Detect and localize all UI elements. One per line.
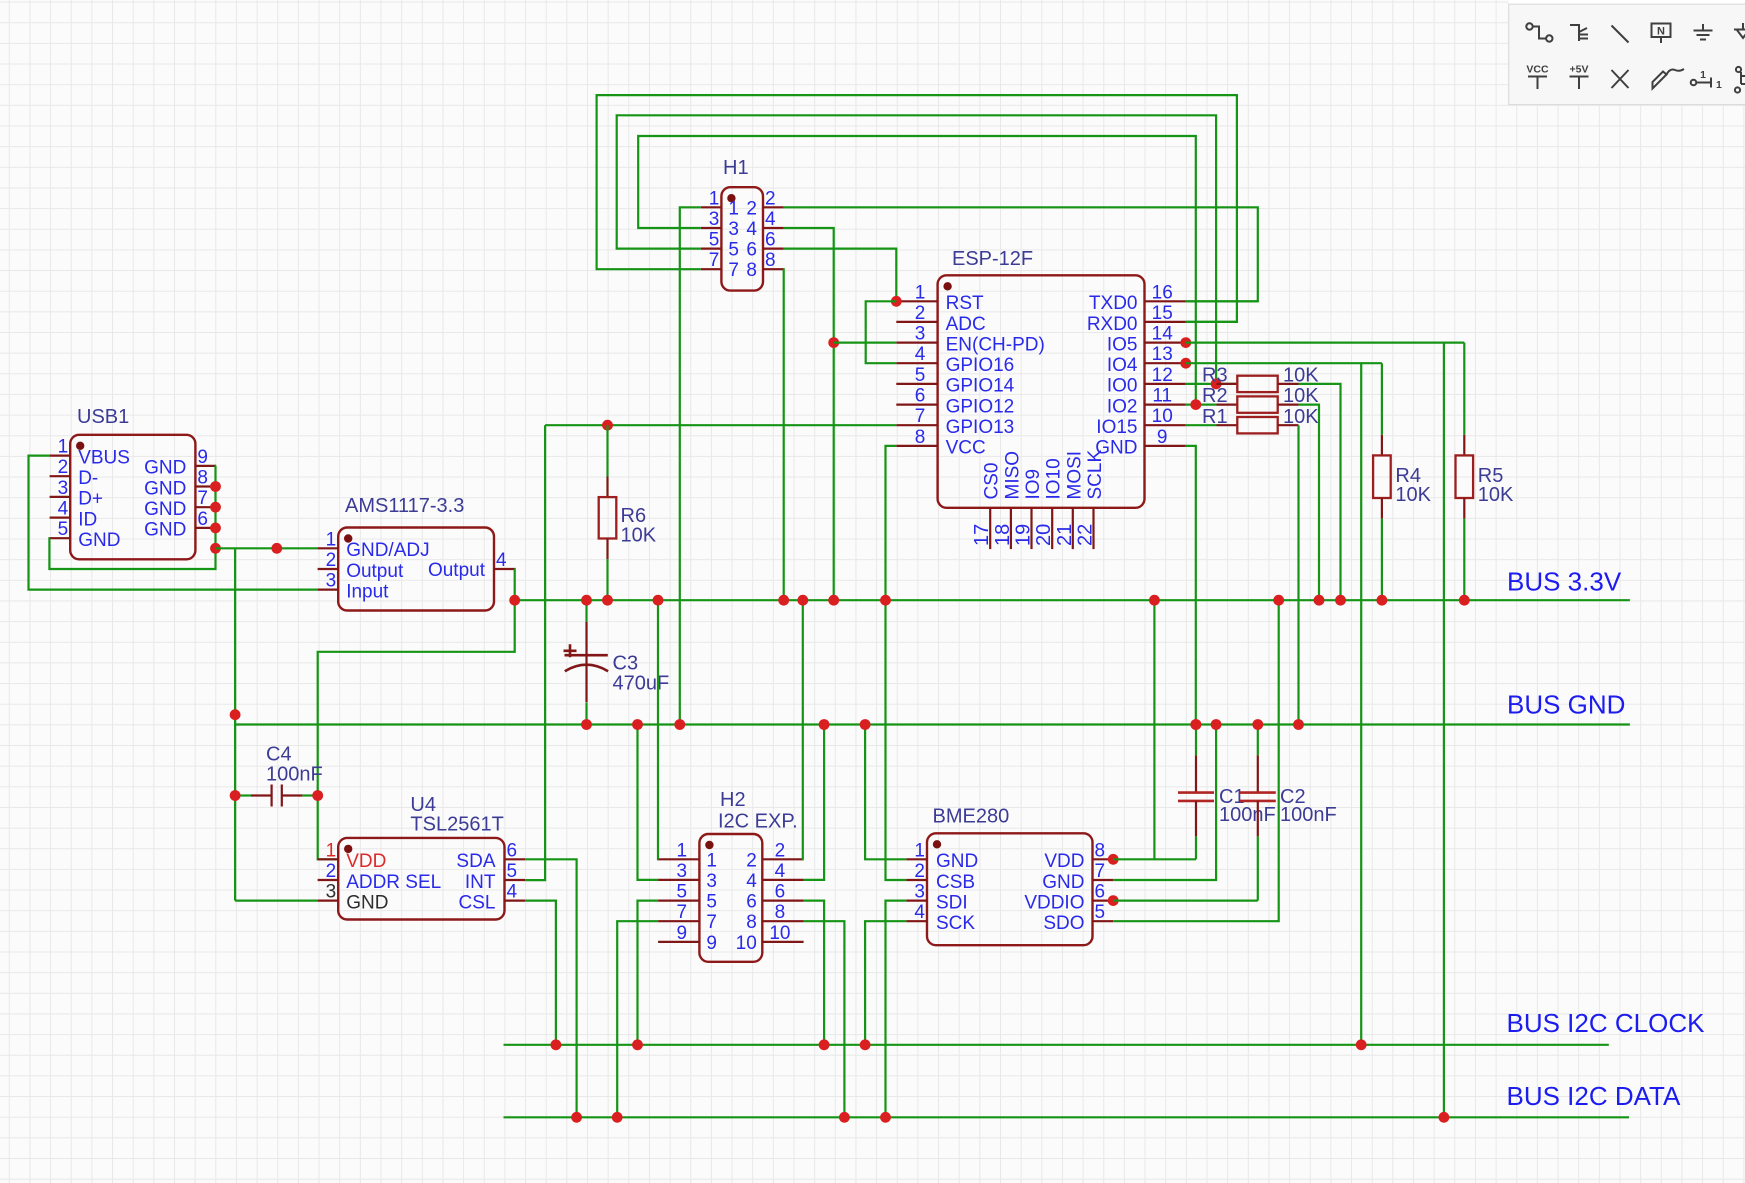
pin 3 BME280 SDI	[906, 899, 927, 901]
pin 6 H1	[763, 248, 784, 250]
wire IO4 row	[1186, 362, 1382, 364]
wire C4 right	[302, 794, 317, 796]
wire IO15 to R1	[1186, 424, 1217, 426]
wire IO5 to BUS I2C DATA	[1443, 343, 1445, 1118]
wire H1 pin8 to BUS 3.3V	[782, 269, 784, 600]
svg-text:19: 19	[1013, 524, 1035, 546]
anchor dot USB1	[76, 442, 84, 450]
svg-text:8: 8	[746, 912, 757, 933]
svg-text:7: 7	[709, 250, 720, 271]
svg-text:5: 5	[507, 861, 518, 882]
svg-text:D-: D-	[78, 468, 98, 489]
svg-text:9: 9	[677, 923, 688, 944]
module ESP-12F body	[938, 275, 1145, 508]
pin 5 USB1 GND	[50, 537, 71, 539]
capacitor C2	[1257, 725, 1259, 756]
svg-text:3: 3	[914, 882, 925, 903]
wire RST to GPIO16	[866, 301, 897, 363]
pin 4 H2	[762, 879, 803, 881]
svg-text:8: 8	[775, 902, 786, 923]
svg-text:IO10: IO10	[1044, 458, 1065, 499]
junction C2 on BUS GND	[1252, 719, 1263, 730]
junction U4 SDA on BUS I2C DATA	[571, 1112, 582, 1123]
svg-text:6: 6	[746, 240, 757, 261]
pin 19 ESP-12F IO9	[1030, 508, 1032, 549]
svg-text:RST: RST	[946, 293, 984, 314]
wire USB GND loop	[49, 466, 216, 569]
svg-text:1: 1	[709, 188, 720, 209]
regulator AMS1117-3.3 body	[338, 528, 494, 611]
pin 1 U4 VDD	[318, 858, 339, 860]
svg-text:H2: H2	[720, 789, 746, 811]
pin 6 H2	[762, 899, 803, 901]
svg-text:5: 5	[728, 240, 739, 261]
svg-text:H1: H1	[723, 157, 749, 179]
pin 2 AMS1117 Output	[318, 568, 339, 570]
toolbar icon line tool	[1612, 26, 1629, 43]
svg-text:10: 10	[736, 933, 757, 954]
pin 14 ESP-12F IO5	[1145, 342, 1186, 344]
svg-text:10: 10	[1152, 406, 1173, 427]
junction R6 top	[602, 420, 613, 431]
wire H1 pin6 to ESP RST	[784, 249, 897, 302]
pin 10 ESP-12F IO15	[1145, 424, 1186, 426]
wire GND vertical to U4	[234, 548, 236, 900]
junction C4 right	[312, 790, 323, 801]
svg-text:ADDR SEL: ADDR SEL	[346, 872, 441, 893]
junction BME GND on BUS GND	[860, 719, 871, 730]
toolbar icon no-connect tool	[1612, 70, 1629, 88]
svg-text:6: 6	[775, 882, 786, 903]
pin 22 ESP-12F SCLK	[1092, 508, 1094, 549]
svg-text:7: 7	[1095, 861, 1106, 882]
svg-text:5: 5	[706, 892, 717, 913]
svg-text:10K: 10K	[1283, 406, 1319, 428]
anchor dot ESP-12F	[943, 282, 951, 290]
junction USB GND pin	[210, 523, 221, 534]
svg-text:2: 2	[915, 303, 926, 324]
svg-text:I2C EXP.: I2C EXP.	[718, 811, 798, 833]
toolbar icon partial right	[1735, 67, 1745, 93]
svg-text:2: 2	[746, 198, 757, 219]
resistor R1	[1217, 424, 1238, 426]
pin 5 H1	[701, 248, 722, 250]
svg-text:CSL: CSL	[459, 892, 496, 913]
wire R2 to BUS 3.3V	[1299, 405, 1320, 601]
junction AMS output on BUS 3.3V	[509, 595, 520, 606]
svg-text:VCC: VCC	[1526, 64, 1549, 76]
pin 15 ESP-12F RXD0	[1145, 321, 1186, 323]
junction H2 pin5 on BUS I2C CLOCK	[632, 1039, 643, 1050]
wire H2 pin1 to BUS 3.3V	[657, 600, 659, 859]
svg-text:SCK: SCK	[936, 913, 975, 934]
wire R3 to BUS 3.3V	[1299, 384, 1341, 600]
junction R6 on BUS 3.3V	[602, 595, 613, 606]
wire IO5 row	[1186, 342, 1465, 344]
svg-text:GND: GND	[78, 530, 120, 551]
svg-text:4: 4	[496, 550, 507, 571]
pin 4 U4 CSL	[505, 899, 526, 901]
toolbar icon earth tool partial	[1734, 23, 1745, 38]
svg-text:GPIO12: GPIO12	[946, 396, 1015, 417]
pin 2 USB1 D-	[50, 475, 71, 477]
wire BME VDD to BUS 3.3V	[1153, 600, 1155, 859]
svg-text:GND: GND	[1042, 872, 1084, 893]
wire H2 pin8 to BUS I2C DATA	[804, 921, 845, 1117]
junction BME VDD pin	[1108, 854, 1119, 865]
svg-text:R3: R3	[1202, 365, 1228, 387]
svg-text:CSB: CSB	[936, 872, 975, 893]
wire IO2 to R2	[1186, 404, 1217, 406]
svg-text:VDD: VDD	[346, 851, 386, 872]
pin 5 ESP-12F GPIO14	[896, 383, 937, 385]
svg-text:3: 3	[728, 219, 739, 240]
svg-text:2: 2	[326, 550, 337, 571]
wire GND to AMS GND/ADJ	[216, 547, 318, 549]
junction BME SDO on BUS 3.3V	[1273, 595, 1284, 606]
wire IO4 to BUS I2C CLOCK	[1360, 363, 1362, 1045]
svg-text:2: 2	[775, 840, 786, 861]
svg-text:ADC: ADC	[946, 314, 986, 335]
wire BME SDO to BUS 3.3V	[1113, 600, 1279, 921]
svg-text:12: 12	[1152, 365, 1173, 386]
wire H2 pin5 to BUS I2C CLOCK	[638, 901, 659, 1045]
svg-text:3: 3	[709, 209, 720, 230]
svg-text:1: 1	[1716, 79, 1722, 91]
svg-text:3: 3	[706, 871, 717, 892]
pin 18 ESP-12F MISO	[1010, 508, 1012, 549]
svg-text:IO5: IO5	[1107, 334, 1138, 355]
capacitor C1	[1195, 725, 1197, 756]
svg-text:4: 4	[507, 882, 518, 903]
svg-text:ID: ID	[78, 509, 97, 530]
svg-text:10K: 10K	[1395, 484, 1431, 506]
pin 2 U4 ADDR SEL	[318, 879, 339, 881]
svg-text:IO0: IO0	[1107, 376, 1138, 397]
svg-text:GND: GND	[144, 499, 186, 520]
svg-text:IO9: IO9	[1023, 469, 1044, 500]
svg-text:R1: R1	[1202, 406, 1228, 428]
svg-text:C4: C4	[266, 744, 292, 766]
svg-text:N: N	[1657, 26, 1665, 38]
pin 6 USB1 GND	[195, 527, 216, 529]
svg-text:1: 1	[915, 282, 926, 303]
wire TXD0 row	[1186, 300, 1258, 302]
wire AMS output to U4 VDD	[318, 569, 515, 859]
junction C3 on BUS 3.3V	[581, 595, 592, 606]
pin 2 H2	[762, 858, 803, 860]
svg-text:17: 17	[971, 524, 993, 546]
svg-text:3: 3	[326, 882, 337, 903]
resistor R3	[1217, 383, 1238, 385]
wire R6 bottom	[606, 559, 608, 600]
junction H2 pin2 on BUS 3.3V	[797, 595, 808, 606]
pin 3 U4 GND	[318, 899, 339, 901]
svg-text:9: 9	[706, 933, 717, 954]
resistor R4	[1381, 363, 1383, 435]
wire BME SCK to BUS I2C CLOCK	[865, 921, 906, 1045]
wire IO0 to R3	[1186, 383, 1238, 385]
svg-text:GND: GND	[936, 851, 978, 872]
sensor BME280 body	[927, 833, 1093, 945]
svg-text:8: 8	[915, 427, 926, 448]
svg-text:ESP-12F: ESP-12F	[952, 248, 1033, 270]
svg-text:GND: GND	[144, 520, 186, 541]
svg-text:10K: 10K	[1478, 484, 1514, 506]
svg-text:20: 20	[1033, 524, 1055, 546]
junction H2 pin3 on BUS GND	[632, 719, 643, 730]
svg-text:VDDIO: VDDIO	[1024, 892, 1084, 913]
junction BME SDI on BUS I2C DATA	[880, 1112, 891, 1123]
junction ESP RST	[891, 296, 902, 307]
svg-text:4: 4	[58, 499, 69, 520]
wire H2 pin6 to BUS I2C CLOCK	[804, 901, 825, 1045]
junction USB GND to AMS	[210, 543, 221, 554]
toolbar icon net label tool	[1652, 24, 1671, 44]
toolbar icon draw tool	[1653, 69, 1685, 89]
junction USB GND pin	[210, 481, 221, 492]
svg-text:CS0: CS0	[982, 463, 1003, 500]
pin 11 ESP-12F IO2	[1145, 404, 1186, 406]
wire BME SDI to BUS I2C DATA	[886, 901, 907, 1118]
svg-text:1: 1	[677, 840, 688, 861]
svg-text:100nF: 100nF	[1280, 804, 1337, 826]
svg-text:5: 5	[915, 365, 926, 386]
junction IO2 / H1 pin3	[1190, 399, 1201, 410]
pin 10 H2	[762, 941, 803, 943]
junction R3 on BUS 3.3V	[1335, 595, 1346, 606]
wire H1 pin2 to ESP TXD0	[784, 207, 1258, 301]
svg-text:1: 1	[1700, 69, 1706, 81]
header H1 body	[721, 187, 763, 290]
junction IO0 / H1 pin5	[1211, 379, 1222, 390]
svg-text:9: 9	[197, 447, 208, 468]
svg-text:GND: GND	[346, 892, 388, 913]
junction H1 pin8 on BUS 3.3V	[778, 595, 789, 606]
pin 1 H1	[701, 206, 722, 208]
svg-text:5: 5	[677, 882, 688, 903]
svg-text:VBUS: VBUS	[78, 447, 130, 468]
header H2 body	[699, 834, 762, 962]
svg-text:7: 7	[706, 912, 717, 933]
svg-text:21: 21	[1054, 524, 1076, 546]
pin 12 ESP-12F IO0	[1145, 383, 1186, 385]
junction H1 pin4 on BUS 3.3V	[828, 595, 839, 606]
wire H2 pin7 to BUS I2C DATA	[617, 921, 658, 1117]
svg-text:VDD: VDD	[1044, 851, 1084, 872]
IC U4 body	[338, 838, 504, 920]
junction H2 pin6 on BUS I2C CLOCK	[819, 1039, 830, 1050]
svg-text:BUS 3.3V: BUS 3.3V	[1507, 567, 1622, 597]
junction H2 pin7 on BUS I2C DATA	[612, 1112, 623, 1123]
svg-text:4: 4	[775, 861, 786, 882]
svg-text:6: 6	[1095, 882, 1106, 903]
svg-text:10: 10	[769, 923, 790, 944]
pin 3 ESP-12F EN(CH-PD)	[896, 342, 937, 344]
wire BME GND to BUS GND	[865, 725, 906, 860]
pin 5 H2	[658, 899, 699, 901]
junction C1 on BUS GND	[1191, 719, 1202, 730]
pin 7 USB1 GND	[195, 506, 216, 508]
junction BME GND7 on BUS GND	[1211, 719, 1222, 730]
junction H2 pin8 on BUS I2C DATA	[839, 1112, 850, 1123]
pin 21 ESP-12F MOSI	[1072, 508, 1074, 549]
anchor dot AMS1117	[344, 534, 352, 542]
junction EN(CH-PD)	[828, 337, 839, 348]
pin 17 ESP-12F CS0	[989, 508, 991, 549]
wire H1 pin5 to ESP IO0	[617, 115, 1216, 384]
wire GPIO13 left	[545, 424, 896, 426]
pin 3 H2	[658, 879, 699, 881]
wire H2 pin4 to BUS GND	[804, 725, 825, 880]
wire H1 pin4 to EN and BUS 3.3V	[784, 228, 834, 600]
capacitor C4 leads and plates	[251, 794, 272, 796]
svg-text:GND/ADJ: GND/ADJ	[346, 540, 429, 561]
junction IO5 on BUS I2C DATA	[1439, 1112, 1450, 1123]
svg-text:3: 3	[915, 324, 926, 345]
svg-text:470uF: 470uF	[613, 673, 670, 695]
svg-text:Output: Output	[428, 560, 486, 581]
wire H1 pin1 to BUS GND	[680, 207, 701, 724]
svg-text:GPIO16: GPIO16	[946, 355, 1015, 376]
wire BME GND7 to BUS GND	[1113, 725, 1216, 881]
svg-text:MISO: MISO	[1002, 451, 1023, 500]
svg-text:SDA: SDA	[456, 851, 495, 872]
wire RXD0 row	[1186, 321, 1237, 323]
wire ESP GND to BUS GND	[1186, 446, 1196, 725]
resistor R5	[1463, 343, 1465, 435]
junction GND wire segment	[271, 543, 282, 554]
junction R2 on BUS 3.3V	[1314, 595, 1325, 606]
wire EN(CH-PD)	[834, 342, 897, 344]
svg-text:4: 4	[746, 871, 757, 892]
svg-text:GPIO13: GPIO13	[946, 417, 1015, 438]
svg-text:7: 7	[677, 902, 688, 923]
svg-text:6: 6	[915, 386, 926, 407]
pin 7 ESP-12F GPIO13	[896, 424, 937, 426]
svg-text:10K: 10K	[621, 525, 657, 547]
pin 9 ESP-12F GND	[1145, 445, 1186, 447]
pin 6 U4 SDA	[505, 858, 526, 860]
svg-text:USB1: USB1	[77, 406, 129, 428]
wire H1 pin3 to ESP IO2	[638, 136, 1196, 405]
svg-text:GND: GND	[144, 478, 186, 499]
svg-text:1: 1	[914, 840, 925, 861]
toolbar icon bus tool	[1570, 25, 1588, 41]
svg-text:MOSI: MOSI	[1064, 451, 1085, 500]
svg-text:7: 7	[728, 260, 739, 281]
svg-text:4: 4	[914, 902, 925, 923]
svg-text:5: 5	[1095, 902, 1106, 923]
pin 5 U4 INT	[505, 879, 526, 881]
svg-text:18: 18	[992, 524, 1014, 546]
wire C4 left	[235, 794, 251, 796]
svg-text:Output: Output	[346, 561, 404, 582]
wire ESP VCC to BME CSB	[886, 446, 907, 880]
pin 1 USB1 VBUS	[50, 455, 71, 457]
svg-text:1: 1	[706, 850, 717, 871]
pin 4 AMS1117 Output	[494, 568, 515, 570]
wire H2 pin2 to BUS 3.3V	[802, 600, 805, 859]
junction R1 on BUS GND	[1293, 719, 1304, 730]
svg-text:6: 6	[197, 509, 208, 530]
junction IO4 pin	[1180, 358, 1191, 369]
svg-text:IO4: IO4	[1107, 355, 1138, 376]
pin 1 ESP-12F RST	[896, 300, 937, 302]
svg-text:4: 4	[915, 344, 926, 365]
svg-text:100nF: 100nF	[1219, 804, 1276, 826]
pin 2 ESP-12F ADC	[896, 321, 937, 323]
svg-text:6: 6	[746, 892, 757, 913]
wire to U4 GND pin	[235, 899, 318, 901]
svg-text:+5V: +5V	[1570, 64, 1589, 76]
junction R4 on BUS 3.3V	[1377, 595, 1388, 606]
wire BUS I2C DATA	[504, 1116, 1630, 1118]
svg-text:15: 15	[1152, 303, 1173, 324]
svg-text:R2: R2	[1202, 385, 1228, 407]
wire U4 SDA to BUS I2C DATA	[525, 859, 577, 1117]
svg-text:100nF: 100nF	[266, 764, 323, 786]
pin 3 USB1 D+	[50, 496, 71, 498]
anchor dot H2	[705, 841, 713, 849]
pin 16 ESP-12F TXD0	[1145, 300, 1186, 302]
pin 8 USB1 GND	[195, 485, 216, 487]
pin 8 BME280 VDD	[1093, 858, 1114, 860]
svg-text:4: 4	[746, 219, 757, 240]
pin 9 H2	[658, 941, 699, 943]
svg-text:1: 1	[728, 198, 739, 219]
svg-text:8: 8	[765, 250, 776, 271]
svg-text:D+: D+	[78, 489, 103, 510]
svg-text:1: 1	[58, 437, 69, 458]
pin 13 ESP-12F IO4	[1145, 362, 1186, 364]
wire VBUS to AMS input	[29, 456, 318, 590]
svg-text:3: 3	[58, 478, 69, 499]
pin 20 ESP-12F IO10	[1051, 508, 1053, 549]
junction R5 on BUS 3.3V	[1459, 595, 1470, 606]
svg-text:8: 8	[1095, 840, 1106, 861]
svg-text:6: 6	[507, 840, 518, 861]
svg-text:GPIO14: GPIO14	[946, 376, 1015, 397]
toolbar icon ground tool	[1694, 24, 1713, 40]
pin 4 USB1 ID	[50, 516, 71, 518]
pin 5 BME280 SDO	[1093, 920, 1114, 922]
anchor dot H1	[727, 194, 735, 202]
toolbar icon pin tool	[1691, 78, 1711, 88]
junction C3 on BUS GND	[581, 719, 592, 730]
svg-text:BUS I2C DATA: BUS I2C DATA	[1507, 1081, 1682, 1111]
svg-text:TXD0: TXD0	[1089, 293, 1138, 314]
anchor dot U4	[344, 845, 352, 853]
svg-text:16: 16	[1152, 282, 1173, 303]
junction U4 CSL on BUS I2C CLOCK	[551, 1039, 562, 1050]
pin 3 AMS1117 Input	[318, 588, 339, 590]
svg-text:IO15: IO15	[1096, 417, 1137, 438]
svg-text:3: 3	[326, 571, 337, 592]
wire C3 bottom	[585, 703, 587, 725]
svg-text:SDO: SDO	[1043, 913, 1084, 934]
junction BME VDDIO pin	[1108, 895, 1119, 906]
pin 6 BME280 VDDIO	[1093, 899, 1114, 901]
svg-text:SCLK: SCLK	[1085, 450, 1106, 500]
svg-text:7: 7	[197, 488, 208, 509]
junction BME SCK on BUS I2C CLOCK	[860, 1039, 871, 1050]
junction GND vertical	[230, 709, 241, 720]
wire H2 pin3 to BUS GND	[638, 725, 659, 880]
svg-text:22: 22	[1075, 524, 1097, 546]
pin 8 H2	[762, 920, 803, 922]
svg-text:EN(CH-PD): EN(CH-PD)	[946, 334, 1045, 355]
